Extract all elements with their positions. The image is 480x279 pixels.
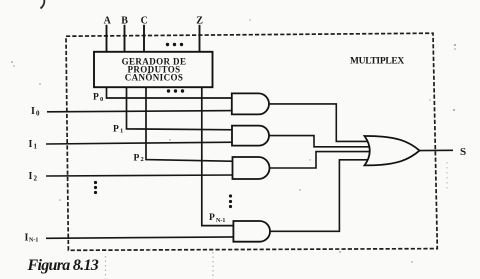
svg-text:S: S [460,146,466,158]
svg-text:0: 0 [36,109,40,117]
svg-text:I: I [29,171,33,182]
svg-text:P: P [209,213,215,223]
svg-text:P: P [134,154,140,164]
svg-text:B: B [121,15,128,26]
svg-text:MULTIPLEX: MULTIPLEX [350,57,404,67]
svg-text:Figura 8.13: Figura 8.13 [27,257,99,274]
svg-text:P: P [113,125,119,135]
svg-text:I: I [25,233,29,244]
svg-text:P: P [93,93,99,103]
svg-text:0: 0 [100,96,103,103]
svg-text:1: 1 [34,142,38,150]
svg-text:CANÔNICOS: CANÔNICOS [125,73,184,83]
svg-text:2: 2 [34,174,38,182]
svg-text:I: I [29,139,33,150]
svg-text:N-1: N-1 [216,218,225,224]
svg-text:1: 1 [120,128,123,135]
svg-text:N-1: N-1 [29,238,38,244]
svg-text:C: C [141,15,148,26]
svg-text:2: 2 [141,156,144,163]
svg-text:Z: Z [196,15,203,26]
svg-text:A: A [104,15,112,26]
svg-text:I: I [31,106,35,117]
